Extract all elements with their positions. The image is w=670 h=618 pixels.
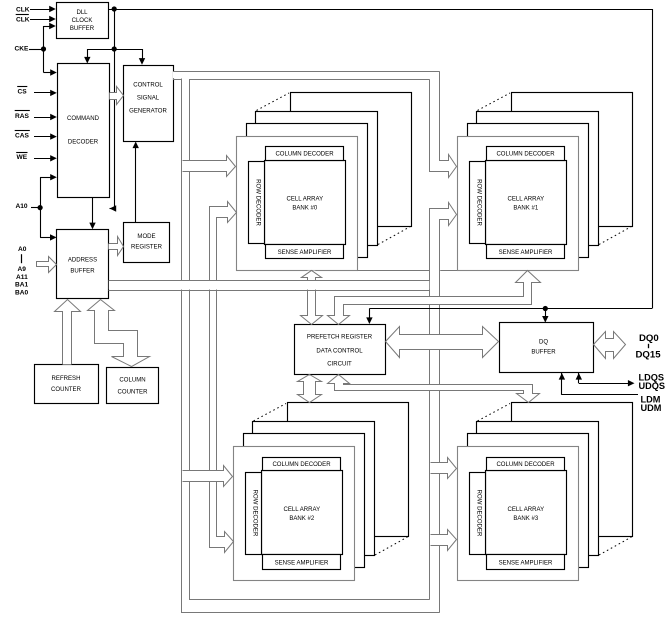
svg-text:ADDRESS: ADDRESS — [68, 258, 97, 264]
svg-text:CAS: CAS — [15, 133, 30, 140]
svg-text:UDM: UDM — [641, 403, 662, 413]
svg-text:BANK #1: BANK #1 — [513, 206, 539, 212]
svg-text:DATA CONTROL: DATA CONTROL — [316, 348, 363, 354]
svg-text:CELL ARRAY: CELL ARRAY — [283, 507, 320, 513]
svg-text:DQ: DQ — [539, 340, 548, 346]
svg-text:COLUMN DECODER: COLUMN DECODER — [272, 462, 331, 468]
svg-text:CIRCUIT: CIRCUIT — [327, 362, 352, 368]
svg-text:GENERATOR: GENERATOR — [129, 109, 167, 115]
svg-text:BUFFER: BUFFER — [531, 350, 556, 356]
svg-text:RAS: RAS — [15, 113, 30, 120]
svg-text:BANK #3: BANK #3 — [513, 516, 539, 522]
svg-text:BANK #2: BANK #2 — [289, 516, 315, 522]
svg-text:DQ0: DQ0 — [639, 333, 659, 344]
svg-text:CS: CS — [18, 88, 28, 95]
svg-text:CELL ARRAY: CELL ARRAY — [507, 507, 544, 513]
svg-text:CELL ARRAY: CELL ARRAY — [286, 197, 323, 203]
svg-text:CLOCK: CLOCK — [72, 18, 93, 24]
svg-text:CLK: CLK — [16, 16, 30, 23]
svg-text:BUFFER: BUFFER — [70, 269, 95, 275]
svg-text:DLL: DLL — [76, 10, 88, 16]
svg-text:BUFFER: BUFFER — [70, 26, 95, 32]
svg-text:COUNTER: COUNTER — [51, 387, 82, 393]
svg-text:ROW DECODER: ROW DECODER — [255, 179, 261, 226]
svg-text:DQ15: DQ15 — [636, 350, 662, 361]
svg-text:ROW DECODER: ROW DECODER — [476, 490, 482, 537]
svg-text:PREFETCH REGISTER: PREFETCH REGISTER — [307, 334, 373, 340]
svg-text:REGISTER: REGISTER — [131, 245, 163, 251]
svg-text:A11: A11 — [16, 274, 28, 281]
svg-text:BA0: BA0 — [15, 290, 29, 297]
svg-text:MODE: MODE — [137, 234, 155, 240]
svg-text:COLUMN DECODER: COLUMN DECODER — [496, 462, 555, 468]
svg-text:SENSE AMPLIFIER: SENSE AMPLIFIER — [499, 250, 553, 256]
svg-text:CKE: CKE — [15, 46, 30, 53]
svg-text:COLUMN: COLUMN — [119, 378, 145, 384]
svg-text:WE: WE — [17, 154, 28, 161]
svg-text:UDQS: UDQS — [639, 381, 666, 391]
svg-text:BANK #0: BANK #0 — [292, 206, 318, 212]
svg-text:ROW DECODER: ROW DECODER — [252, 490, 258, 537]
svg-text:COLUMN DECODER: COLUMN DECODER — [275, 152, 334, 158]
svg-text:SENSE AMPLIFIER: SENSE AMPLIFIER — [278, 250, 332, 256]
svg-text:CONTROL: CONTROL — [133, 83, 163, 89]
svg-text:BA1: BA1 — [15, 282, 29, 289]
svg-text:ROW DECODER: ROW DECODER — [476, 179, 482, 226]
svg-text:COMMAND: COMMAND — [67, 116, 100, 122]
svg-text:CELL ARRAY: CELL ARRAY — [507, 197, 544, 203]
svg-text:CLK: CLK — [16, 7, 30, 14]
svg-text:COLUMN DECODER: COLUMN DECODER — [496, 152, 555, 158]
svg-text:SENSE AMPLIFIER: SENSE AMPLIFIER — [499, 560, 553, 566]
svg-text:SIGNAL: SIGNAL — [137, 96, 160, 102]
svg-text:A10: A10 — [16, 203, 28, 210]
svg-text:COUNTER: COUNTER — [118, 390, 149, 396]
svg-text:REFRESH: REFRESH — [52, 376, 81, 382]
svg-text:A0: A0 — [18, 246, 27, 253]
svg-text:DECODER: DECODER — [68, 140, 99, 146]
svg-text:SENSE AMPLIFIER: SENSE AMPLIFIER — [275, 560, 329, 566]
svg-text:A9: A9 — [18, 266, 27, 273]
